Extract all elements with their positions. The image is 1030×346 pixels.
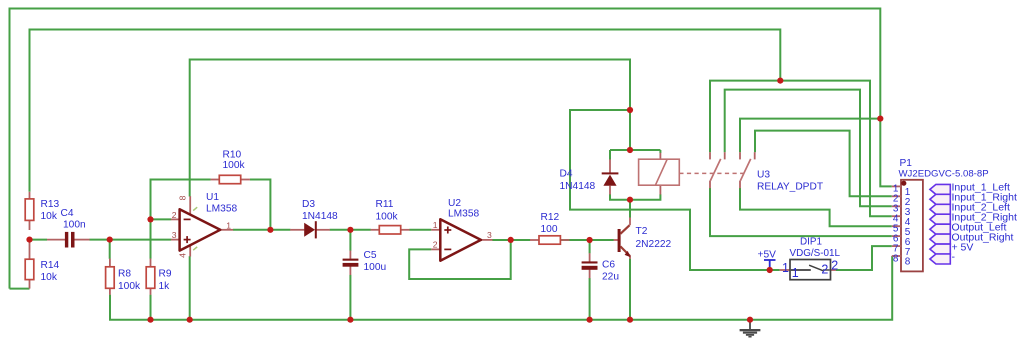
svg-text:8: 8 [893,253,899,264]
junction relay bottom bar [627,197,633,203]
switch DIP1 [780,269,791,271]
svg-text:1N4148: 1N4148 [560,181,596,192]
net flag Input_2_Right [930,214,950,224]
svg-text:U1: U1 [206,192,219,203]
wire net Input_2_Right [710,81,892,217]
svg-text:R13: R13 [41,199,60,210]
svg-text:D4: D4 [560,169,573,180]
wire relay bottom bar [610,194,660,199]
junction C5/GND [347,317,353,323]
svg-text:1: 1 [782,261,789,275]
junction Input_2_Right/switch [777,78,783,84]
wire R11 to U2 pin1 [409,229,431,231]
svg-text:C4: C4 [61,208,74,219]
svg-text:R9: R9 [159,269,172,280]
wire U2 feedback loop [409,240,511,279]
net flag Input_2_Left [930,204,950,214]
connector P1 pin 8 stub [892,255,901,257]
svg-text:R12: R12 [541,212,560,223]
svg-text:8: 8 [905,257,911,268]
net flag Input_1_Right [930,194,950,204]
wire T2 emitter to GND [629,259,631,320]
wire DIP1 pin2 to P1 pin7 [836,246,892,270]
svg-text:2: 2 [433,240,438,250]
junction R9/R10/U1pin2 [147,216,153,222]
svg-text:C6: C6 [602,260,615,271]
wire to R8 top [109,240,111,259]
wire R9 top [150,219,152,258]
junction U2 out/feedback [508,237,514,243]
svg-text:LM358: LM358 [206,204,237,215]
relay switch S2 [739,152,741,159]
junction +5V supply [767,267,773,273]
svg-text:3: 3 [487,230,492,240]
relay switch S1 [709,152,711,159]
connector P1 pin 5 stub [892,225,901,227]
wire to T2 collector [629,200,631,218]
junction relay top bar [627,147,633,153]
wire U1 pin2 [151,218,172,220]
svg-text:R8: R8 [118,269,131,280]
wire D4 cathode drop [609,150,611,160]
wire net Input_1_Left top loop [10,9,892,289]
svg-text:2: 2 [821,263,828,277]
resistor R10 [211,179,220,181]
junction R9/GND [147,317,153,323]
wire +5V to DIP1 pin1 [570,110,780,270]
net flag - [930,254,950,264]
wire +5V into relay [629,110,631,150]
net flag + 5V [930,244,950,254]
junction Input_1_Left/switch [877,116,883,122]
wire U1 pin4 to GND [189,256,191,320]
connector P1 pin 1 stub [892,185,901,187]
resistor R11 [371,229,380,231]
svg-text:1: 1 [433,220,438,230]
svg-text:WJ2EDGVC-5.08-8P: WJ2EDGVC-5.08-8P [899,169,989,180]
wire GND rail [110,256,892,320]
connector P1 pin 4 stub [892,215,901,217]
wire coil pin1 drop [659,150,661,153]
junction R13/R14/C4 [26,237,32,243]
junction D3/C5/R11 [347,227,353,233]
wire C6 bottom to GND [589,278,591,320]
relay coil U3 [659,153,661,160]
net flag Output_Left [930,224,950,234]
U1 pin direction marks [193,207,197,210]
svg-text:100k: 100k [376,212,399,223]
junction C4/R8/U1pin3 [107,237,113,243]
net flag Output_Right [930,234,950,244]
svg-text:4: 4 [178,253,188,258]
svg-text:2: 2 [172,210,177,220]
svg-text:1k: 1k [159,281,171,292]
wire C5 bottom to GND [349,275,351,320]
wire switch1 common to P1 pin6 Output_Right [710,188,892,236]
op-amp U1 [171,218,181,220]
connector P1 pin 6 stub [892,235,901,237]
junction +5V relay top [627,107,633,113]
+5V supply symbol [769,260,771,270]
wire D3 to R11 [330,229,371,231]
resistor R9 [150,259,152,267]
capacitor C6 [589,253,591,261]
wire +5V U1 pin8 to relay top [190,60,630,197]
connector P1 pin 7 stub [892,245,901,247]
svg-text:RELAY_DPDT: RELAY_DPDT [757,182,823,193]
ground symbol [749,320,751,330]
junction R12/C6/T2 base [587,237,593,243]
wire relay top bar [610,149,660,151]
wire C4 to U1 pin3 [89,239,171,241]
wire R12 to T2 base [561,239,614,241]
junction T2 emitter/GND [627,317,633,323]
wire net Input_1_Right [755,131,892,197]
svg-text:100u: 100u [364,262,387,273]
svg-text:3: 3 [172,230,177,240]
diode D4 [609,159,611,172]
svg-text:DIP1: DIP1 [800,237,822,248]
resistor R13 [29,192,31,199]
wire to C6 top [589,240,591,253]
svg-text:R14: R14 [41,260,60,271]
wire switch2 contact-a to Input_1_Left [740,119,880,153]
svg-text:P1: P1 [900,158,913,169]
svg-text:+5V: +5V [758,250,777,261]
svg-text:22u: 22u [602,272,619,283]
diode D3 [290,229,304,231]
svg-text:8: 8 [178,195,188,200]
svg-text:10k: 10k [41,211,58,222]
connector P1 pin 2 stub [892,195,901,197]
connector P1 box [901,180,923,272]
svg-text:1: 1 [226,220,231,230]
capacitor C5 [349,251,351,259]
svg-text:100k: 100k [223,160,246,171]
wire to C5 top [349,230,351,251]
capacitor C4 [47,239,65,241]
junction C6/GND [587,317,593,323]
svg-text:D3: D3 [302,199,315,210]
svg-text:100: 100 [541,224,558,235]
junction GND symbol [747,317,753,323]
svg-text:10k: 10k [41,272,58,283]
svg-text:U2: U2 [448,198,461,209]
resistor R8 [109,259,111,267]
wire Input_2_Right to R13 top [30,30,781,192]
connector P1 pin 3 stub [892,205,901,207]
svg-text:1: 1 [792,266,799,280]
svg-text:R11: R11 [376,199,394,210]
svg-text:2: 2 [831,258,838,272]
resistor R14 [29,240,31,260]
svg-text:T2: T2 [636,226,648,237]
wire R14 bottom to left rail [10,288,30,290]
wire R9 bottom to GND [150,295,152,320]
junction U1pin4/GND [187,317,193,323]
svg-text:1N4148: 1N4148 [302,211,338,222]
resistor R12 [530,239,539,241]
op-amp U2 [431,229,441,231]
svg-text:2N2222: 2N2222 [636,239,672,250]
svg-text:C5: C5 [364,250,377,261]
svg-text:100n: 100n [63,220,86,231]
wire net Input_2_Left [725,90,892,207]
wire switch2 common to P1 pin5 Output_Left [740,188,892,226]
svg-text:LM358: LM358 [448,209,479,220]
transistor T2 [614,239,618,241]
wire input junction to C4 [30,239,48,241]
wire R10 right to U1 out [250,180,271,230]
connector P1 origin dot [901,181,906,186]
wire U2 out to R12 [492,239,530,241]
svg-text:100k: 100k [118,281,141,292]
net flag Input_1_Left [930,184,950,194]
svg-text:U3: U3 [757,170,770,181]
wire feedback to R10 left [151,180,211,220]
wire U1 out to D3 [233,229,290,231]
svg-text:-: - [952,251,956,263]
relay actuation dashed line [679,172,747,174]
junction U1 out/R10 [267,227,273,233]
